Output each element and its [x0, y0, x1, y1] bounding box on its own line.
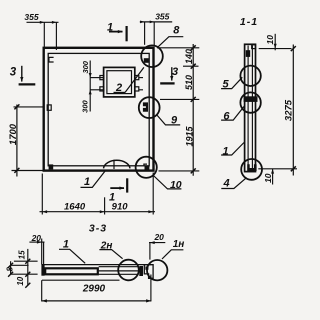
right chain ext top: [157, 47, 199, 49]
dim 1700 ticks: [14, 104, 19, 172]
callout circle 10: [136, 157, 157, 178]
hook embedded part top-left: [49, 57, 54, 62]
label 6 shelf leader: [221, 106, 245, 120]
dim 20 right arrow: [150, 241, 155, 244]
dim 20 left ext: [42, 239, 44, 265]
bolt line left lower: [90, 89, 103, 91]
svg-text:4: 4: [223, 178, 230, 190]
dim 1700 ext bottom: [12, 170, 44, 172]
dim 2990 left ext: [41, 280, 43, 301]
dim 355 left arrows: [40, 21, 57, 24]
right chain ext 140: [183, 65, 199, 67]
section mark 3 right arrow: [171, 67, 173, 80]
svg-text:10: 10: [170, 179, 182, 191]
svg-text:1-1: 1-1: [240, 16, 258, 28]
dim 355 left ext 1: [43, 22, 45, 48]
panel inner rib line: [48, 53, 149, 165]
svg-text:510: 510: [184, 75, 194, 90]
svg-text:10: 10: [16, 276, 25, 285]
svg-text:1700: 1700: [8, 123, 19, 145]
embedded part in circle 8: [144, 58, 149, 63]
component 2 outer square: [104, 67, 135, 97]
callout circle 5: [240, 66, 260, 86]
right chain ticks: [191, 45, 196, 173]
stacked dims ticks: [8, 259, 30, 288]
callout circle 4: [241, 159, 262, 180]
right chain ext bottom: [159, 170, 200, 172]
bottom dim line 1640 910: [40, 211, 156, 213]
svg-text:20: 20: [153, 232, 164, 242]
svg-text:3-3: 3-3: [89, 223, 107, 235]
svg-text:1915: 1915: [184, 125, 194, 146]
dim 20 left line: [29, 241, 44, 243]
svg-text:1: 1: [63, 239, 69, 251]
section mark 1 top trace: [125, 26, 127, 41]
label 1 leader section 3-3: [59, 249, 85, 263]
svg-text:3: 3: [10, 67, 17, 79]
section 3-3 left cap: [41, 265, 44, 276]
label 2 leader: [125, 67, 144, 92]
dim 1700 ext top: [14, 106, 45, 108]
svg-text:2990: 2990: [82, 284, 106, 295]
dim 300 arrows: [89, 73, 92, 94]
label 2 underline: [114, 92, 126, 94]
panel outer outline: [44, 48, 154, 171]
section 1-1 bottom embedded U: [247, 164, 256, 171]
svg-text:3: 3: [172, 66, 178, 78]
svg-text:5: 5: [223, 79, 230, 91]
svg-text:10: 10: [265, 35, 275, 45]
section 3-3 joint bracket: [144, 265, 153, 279]
dim 2990 arrows: [42, 299, 152, 302]
dim 10 top ext: [259, 48, 292, 50]
svg-text:15: 15: [17, 250, 26, 259]
dim 1700 line: [16, 105, 18, 177]
section mark 3 left trace: [19, 83, 36, 85]
svg-text:1н: 1н: [173, 239, 185, 250]
section 1-1 top tab: [252, 45, 256, 49]
svg-text:20: 20: [31, 233, 42, 243]
label 10 shelf and leader: [153, 176, 181, 189]
label 1 leader main view: [81, 171, 106, 188]
embedded part left mid: [47, 105, 51, 110]
callout circle 1n: [147, 260, 167, 280]
dim 20 right line: [149, 242, 165, 244]
svg-text:140: 140: [184, 49, 194, 64]
dome center line: [113, 160, 115, 169]
dim 3275 ticks: [291, 46, 296, 171]
section 3-3 joint plate: [139, 266, 143, 276]
stacked dims line A: [27, 249, 29, 286]
bottom dim ext mid: [104, 197, 106, 214]
component 2 inner square: [107, 71, 132, 94]
section 1-1 top embedded part: [246, 50, 250, 57]
svg-text:9: 9: [171, 115, 178, 127]
embedded part in circle 9: [143, 102, 148, 111]
embedded part step in circle 10: [144, 164, 147, 166]
label 1n leader: [162, 250, 183, 259]
bottom dim ext right: [152, 173, 154, 215]
label 4 shelf leader: [221, 178, 246, 189]
dim 10 bottom arrow: [271, 169, 274, 174]
bolt right lower: [135, 87, 139, 91]
bolt left lower: [100, 87, 104, 91]
label 1 shelf leader section: [221, 143, 244, 156]
bolt right upper: [135, 76, 139, 80]
svg-text:8: 8: [173, 25, 180, 37]
section 1-1 bar outline: [245, 44, 256, 171]
section 3-3 bottom line: [42, 279, 120, 281]
bottom dim ext left: [41, 174, 43, 215]
svg-text:1640: 1640: [64, 201, 86, 212]
callout circle 8: [141, 45, 163, 67]
bottom dim arrows: [42, 210, 153, 213]
section 1-1 bar inner lines: [248, 46, 252, 171]
dim 355 right arrows: [140, 21, 154, 24]
svg-text:6: 6: [223, 111, 230, 123]
dim 300 line: [89, 61, 91, 112]
svg-text:1: 1: [84, 176, 90, 188]
dim 3275 ext bottom: [258, 168, 297, 170]
dim 20 left arrow: [37, 241, 42, 244]
dim 2990 line: [42, 300, 152, 302]
right dim chain line: [192, 44, 194, 176]
svg-text:2: 2: [115, 82, 122, 94]
svg-text:355: 355: [155, 12, 169, 22]
stacked dims line B: [10, 261, 12, 274]
dim 355 right ext 2: [153, 22, 155, 46]
section mark 1 bottom arrow: [110, 187, 124, 189]
label 5 shelf leader: [221, 77, 242, 88]
svg-text:300: 300: [81, 60, 90, 73]
ext 2990 right upper: [150, 275, 152, 302]
label 2n leader: [99, 250, 122, 259]
section 3-3 joint bolt: [145, 266, 148, 269]
section mark 3 right trace: [160, 82, 174, 84]
bolt line left upper: [90, 77, 103, 79]
svg-text:1: 1: [223, 145, 229, 157]
dim 10 top line: [274, 34, 276, 51]
embedded part left bottom: [49, 164, 54, 169]
svg-text:8: 8: [6, 267, 15, 272]
label 8 shelf and leader: [158, 37, 184, 48]
svg-text:910: 910: [112, 201, 129, 212]
callout circle 9: [139, 97, 160, 118]
svg-text:300: 300: [80, 100, 89, 113]
dim 355 right line: [140, 21, 172, 23]
svg-text:355: 355: [24, 12, 38, 22]
right chain ext 510: [160, 98, 199, 100]
bolt line right upper: [139, 77, 143, 79]
dim 355 right ext 1: [144, 22, 146, 45]
stacked dims ext lines: [11, 261, 38, 274]
dim 20 right ext: [149, 243, 151, 260]
section mark 3 left arrow: [21, 66, 23, 82]
svg-text:10: 10: [263, 173, 273, 183]
bolt left upper: [100, 76, 104, 80]
section 3-3 top line: [42, 264, 151, 266]
svg-text:3275: 3275: [283, 99, 294, 121]
dim 10 bottom line: [272, 169, 274, 185]
svg-text:1: 1: [107, 22, 113, 34]
callout circle 6: [240, 92, 260, 112]
bolt line right lower: [139, 89, 143, 91]
callout circle 2n: [118, 260, 139, 281]
embedded part in circle 10: [145, 166, 150, 171]
dim 3275 line: [292, 45, 294, 176]
section 3-3 rib: [45, 268, 98, 274]
lifting dome at bottom: [104, 160, 131, 168]
section mark 1 bottom trace: [126, 178, 128, 192]
label 9 shelf and leader: [157, 115, 180, 125]
svg-text:2н: 2н: [100, 240, 113, 251]
section mark 1 top arrow: [109, 31, 123, 33]
dim 355 left line: [27, 21, 59, 23]
dim 10 top arrow: [274, 44, 277, 49]
dim 355 left ext 2: [55, 22, 57, 50]
section 1-1 mid embedded band: [244, 96, 258, 102]
section 3-3 right flange lines: [99, 267, 139, 275]
